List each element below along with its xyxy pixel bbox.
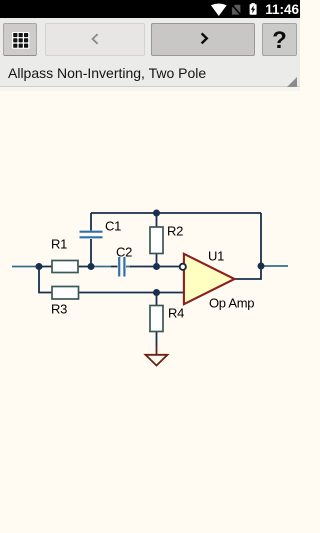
svg-text:U1: U1 xyxy=(208,249,224,264)
svg-text:R4: R4 xyxy=(168,306,184,321)
svg-text:C2: C2 xyxy=(116,245,132,260)
svg-text:R1: R1 xyxy=(51,237,67,252)
svg-text:R2: R2 xyxy=(167,224,183,239)
svg-text:R3: R3 xyxy=(51,302,67,317)
svg-text:C1: C1 xyxy=(105,219,121,234)
svg-text:Op Amp: Op Amp xyxy=(209,296,254,311)
